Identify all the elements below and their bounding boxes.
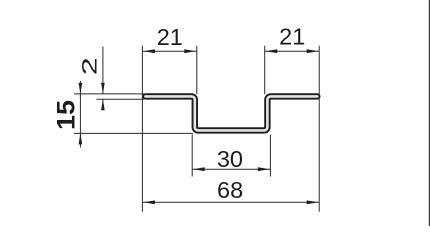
hat profile cross-section (inner grey core) xyxy=(145,96,317,130)
dimension line 30 (y=169.2) xyxy=(192,168,270,170)
dimension line 15 (x=80.4) xyxy=(79,81,81,148)
arrow right 21 left xyxy=(266,49,278,53)
arrow 30 right xyxy=(258,167,270,171)
extension line right outer (x=319.2) xyxy=(318,46,320,212)
arrow right 21 right xyxy=(307,49,319,53)
svg-text:21: 21 xyxy=(157,24,183,50)
extension line flange bottom surface for 2 (y=99.2) xyxy=(97,98,145,100)
arrow 30 left xyxy=(193,167,205,171)
svg-text:21: 21 xyxy=(279,23,305,49)
dimension line right 21 (y=51.2) xyxy=(265,50,320,52)
extension line 30 right (x=270.4) xyxy=(269,135,271,177)
extension line 30 left (x=192.2) xyxy=(191,135,193,177)
dimension line 2 upper segment (x=102.9) xyxy=(102,47,104,94)
arrow 2 bottom (pointing up) xyxy=(101,99,105,110)
svg-text:15: 15 xyxy=(54,100,81,130)
dimension line 68 (y=202.3) xyxy=(142,201,319,203)
arrow left 21 right xyxy=(184,49,196,53)
arrow 68 left xyxy=(143,200,155,204)
extension line right inner 21 (x=264.7) xyxy=(264,46,266,94)
arrow 15 bottom (pointing up) xyxy=(79,133,83,144)
arrow 15 top (pointing down) xyxy=(79,83,83,94)
dimension line 2 lower segment (x=102.9) xyxy=(102,99,104,109)
svg-text:30: 30 xyxy=(217,146,243,172)
right edge border line xyxy=(429,0,430,226)
extension line left outer (x=142.4) xyxy=(141,46,143,212)
arrow left 21 left xyxy=(143,49,155,53)
svg-text:68: 68 xyxy=(217,177,243,203)
dimension line left 21 (y=51.2) xyxy=(142,50,196,52)
arrow 2 top (pointing down) xyxy=(101,83,105,94)
extension line top surface (y=93.9) xyxy=(74,93,144,95)
extension line left inner 21 (x=196.8) xyxy=(196,46,198,94)
extension line bottom surface for 15 (y=133.4) xyxy=(74,132,193,134)
arrow 68 right xyxy=(307,200,319,204)
svg-text:2: 2 xyxy=(77,57,101,75)
hat profile cross-section (outer black sheet) xyxy=(145,96,317,130)
